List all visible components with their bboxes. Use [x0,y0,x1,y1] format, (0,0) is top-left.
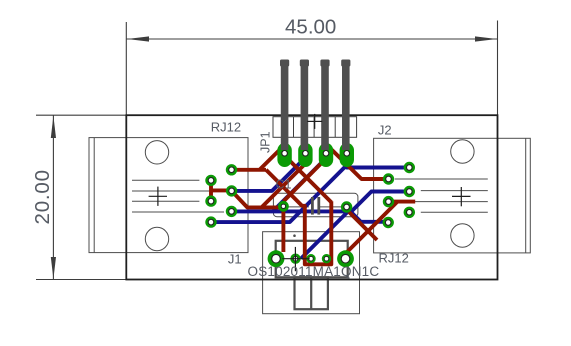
svg-text:45.00: 45.00 [285,16,336,39]
svg-text:20.00: 20.00 [31,169,54,224]
svg-text:RJ12: RJ12 [379,251,409,266]
svg-text:RJ12: RJ12 [211,120,241,135]
svg-text:J1: J1 [228,252,242,267]
svg-text:C1: C1 [276,178,292,192]
svg-text:JP1: JP1 [259,131,273,153]
svg-text:OS102011MA1QN1C: OS102011MA1QN1C [248,264,380,279]
svg-text:J2: J2 [378,123,392,138]
